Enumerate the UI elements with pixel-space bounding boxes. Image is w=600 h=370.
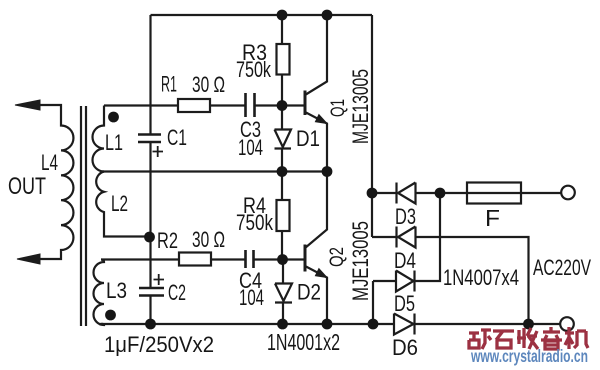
junction bottom rail AC xyxy=(523,319,534,330)
phase dot L3 xyxy=(105,310,116,321)
transistor Q2 xyxy=(304,245,307,272)
winding L4 xyxy=(40,105,73,259)
svg-text:L1: L1 xyxy=(105,130,123,155)
wire L2 bottom tap xyxy=(104,233,150,237)
wire D5 left leg xyxy=(372,281,374,324)
svg-text:D3: D3 xyxy=(395,204,416,229)
resistor R4 xyxy=(277,200,290,231)
junction top rail R3 xyxy=(277,10,288,21)
transistor Q2 collector xyxy=(305,172,327,249)
junction bottom rail D2 xyxy=(277,319,288,330)
svg-text:R2: R2 xyxy=(157,228,178,253)
wire left vertical lower xyxy=(149,296,151,325)
wire mid rail xyxy=(102,170,327,172)
junction bottom rail D5 xyxy=(368,319,379,330)
junction bottom rail C2 xyxy=(145,319,156,330)
junction Q1 base node xyxy=(277,100,288,111)
svg-text:D5: D5 xyxy=(394,291,415,316)
diode D2 xyxy=(275,260,292,325)
watermark crystalradio logo xyxy=(469,327,588,349)
svg-text:D6: D6 xyxy=(392,335,418,360)
transistor Q2 emitter arrow xyxy=(315,269,327,278)
svg-text:D1: D1 xyxy=(296,126,320,151)
wire D5 to node xyxy=(415,193,441,281)
svg-text:MJE13005: MJE13005 xyxy=(348,69,373,144)
svg-text:C1: C1 xyxy=(167,125,187,150)
junction bottom rail Q2 emitter xyxy=(322,319,333,330)
wire R1 row left xyxy=(104,104,178,106)
arrow OUT top xyxy=(15,100,40,110)
svg-text:www.crystalradio.cn: www.crystalradio.cn xyxy=(470,346,588,366)
wire R3 bottom xyxy=(281,75,283,106)
transistor Q2 emitter xyxy=(305,266,327,324)
junction top rail Q1 collector xyxy=(322,10,333,21)
winding L2 xyxy=(96,172,104,234)
diode D1 xyxy=(275,106,292,172)
svg-text:MJE13005: MJE13005 xyxy=(348,221,373,301)
wire D3 to fuse xyxy=(416,192,562,194)
wire right vertical xyxy=(371,15,373,237)
label C1 plus xyxy=(153,146,164,157)
wire R3 top xyxy=(281,15,283,44)
svg-text:1μF/250Vx2: 1μF/250Vx2 xyxy=(104,332,214,357)
wire R2 row left xyxy=(101,258,179,260)
resistor R1 xyxy=(178,99,210,112)
svg-text:30 Ω: 30 Ω xyxy=(192,72,225,97)
resistor R3 xyxy=(277,44,290,75)
junction mid rail R4 xyxy=(277,166,288,177)
svg-text:F: F xyxy=(485,205,500,231)
svg-text:AC220V: AC220V xyxy=(533,255,591,280)
junction Q2 base node xyxy=(277,254,288,265)
diode D3 xyxy=(372,183,416,204)
svg-text:30 Ω: 30 Ω xyxy=(192,227,225,252)
svg-text:Q1: Q1 xyxy=(328,99,349,117)
capacitor C2 xyxy=(139,288,164,296)
transistor Q1 collector xyxy=(305,15,327,95)
svg-text:L4: L4 xyxy=(41,150,58,175)
phase dot L1 xyxy=(108,112,119,123)
svg-text:L3: L3 xyxy=(106,278,127,303)
wire left vertical middle xyxy=(149,142,151,288)
wire R4 bottom xyxy=(281,231,283,259)
label C2 plus xyxy=(154,274,165,285)
capacitor C3 xyxy=(246,93,255,117)
junction D3 right node xyxy=(435,188,446,199)
wire R2 to C4 xyxy=(211,258,246,260)
fuse F xyxy=(467,183,521,204)
svg-text:OUT: OUT xyxy=(8,173,46,200)
wire R1 to C3 xyxy=(210,104,246,106)
wire C4 to Q2 base xyxy=(254,258,306,260)
wire bottom rail left xyxy=(99,323,394,325)
svg-text:750k: 750k xyxy=(236,57,272,82)
svg-text:C2: C2 xyxy=(168,280,186,305)
svg-text:750k: 750k xyxy=(236,210,274,235)
terminal AC top xyxy=(561,186,575,200)
wire left vertical upper xyxy=(149,15,151,134)
wire R4 top xyxy=(281,172,283,201)
arrow OUT bottom xyxy=(17,254,40,264)
terminal AC bottom xyxy=(560,317,574,331)
resistor R2 xyxy=(179,253,211,266)
junction C1 C2 R2 xyxy=(144,232,155,243)
wire top rail xyxy=(151,14,373,16)
svg-text:104: 104 xyxy=(238,135,263,160)
svg-text:L2: L2 xyxy=(111,191,128,216)
wire C3 to Q1 base xyxy=(255,104,306,106)
diode D5 xyxy=(373,271,415,292)
transformer core xyxy=(81,106,86,326)
svg-text:D4: D4 xyxy=(394,248,416,273)
wire bottom rail right xyxy=(415,323,561,325)
transistor Q1 xyxy=(304,91,307,116)
capacitor C4 xyxy=(246,250,254,268)
winding L1 xyxy=(93,106,105,172)
transistor Q1 emitter xyxy=(305,112,327,172)
diode D6 xyxy=(394,314,415,335)
svg-text:Q2: Q2 xyxy=(327,247,348,267)
junction mid rail Q1 emitter xyxy=(322,166,333,177)
svg-text:1N4001x2: 1N4001x2 xyxy=(267,329,340,355)
wire D4 to AC right xyxy=(416,237,529,324)
junction D3 left node xyxy=(367,188,378,199)
capacitor C1 xyxy=(138,135,161,143)
svg-text:D2: D2 xyxy=(297,280,321,305)
svg-text:R1: R1 xyxy=(161,72,177,97)
transistor Q1 emitter arrow xyxy=(315,115,327,124)
svg-text:104: 104 xyxy=(239,285,264,310)
svg-text:1N4007x4: 1N4007x4 xyxy=(443,265,519,290)
diode D4 xyxy=(372,227,416,248)
winding L3 xyxy=(94,260,105,326)
